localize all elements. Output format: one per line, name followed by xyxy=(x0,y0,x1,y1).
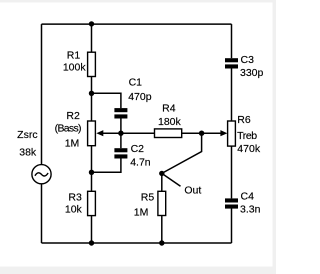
potentiometer R6 (Treb) xyxy=(220,114,260,155)
svg-text:1M: 1M xyxy=(134,207,149,219)
potentiometer R2 (Bass) xyxy=(55,110,104,150)
wire node D to R6 wiper xyxy=(202,132,221,134)
svg-text:(Bass): (Bass) xyxy=(55,123,81,135)
svg-text:Zsrc: Zsrc xyxy=(17,129,37,141)
svg-text:470p: 470p xyxy=(128,91,152,103)
svg-text:Treb: Treb xyxy=(237,130,257,142)
svg-text:R6: R6 xyxy=(237,114,251,126)
node A xyxy=(89,91,94,96)
wire Out label pointer xyxy=(162,173,181,186)
wire R3 to bottom rail xyxy=(91,216,93,243)
svg-text:R4: R4 xyxy=(162,103,176,115)
svg-text:3.3n: 3.3n xyxy=(240,204,261,216)
svg-text:C4: C4 xyxy=(241,190,255,202)
node D xyxy=(199,131,204,136)
svg-text:C2: C2 xyxy=(131,143,145,155)
source Zsrc xyxy=(17,129,51,184)
wire node A to R2 xyxy=(91,93,93,121)
svg-text:4.7n: 4.7n xyxy=(130,157,151,169)
svg-text:R2: R2 xyxy=(66,110,80,122)
wire right rail top xyxy=(231,24,233,58)
svg-text:38k: 38k xyxy=(19,147,37,159)
window chrome gray bands xyxy=(0,0,276,3)
node R3 bottom xyxy=(89,240,94,245)
node B xyxy=(89,170,94,175)
capacitor C3 xyxy=(225,54,264,79)
resistor R3 xyxy=(65,191,96,215)
capacitor C4 xyxy=(225,190,261,215)
svg-text:1M: 1M xyxy=(65,138,80,150)
svg-text:100k: 100k xyxy=(63,62,87,74)
wire node A to C1 xyxy=(92,93,121,108)
wire R1 branch top xyxy=(91,24,93,52)
wire right rail bottom xyxy=(231,208,233,243)
wire R5 to bottom rail xyxy=(161,216,163,244)
wire right rail C3 to R6 xyxy=(231,68,233,121)
wire left rail lower xyxy=(41,184,43,243)
svg-text:C3: C3 xyxy=(241,54,255,66)
svg-text:10k: 10k xyxy=(65,204,83,216)
node Out xyxy=(159,171,164,176)
wire bottom rail xyxy=(42,242,232,244)
resistor R1 xyxy=(63,50,96,77)
wire top rail xyxy=(42,23,232,25)
wire left rail upper xyxy=(41,24,43,165)
wire R4 to node D xyxy=(182,132,202,134)
wire C2 to node B xyxy=(92,158,121,172)
svg-text:R1: R1 xyxy=(67,50,81,62)
wire C1 to C2 xyxy=(120,118,122,148)
node R5 bottom xyxy=(159,240,164,245)
capacitor C2 xyxy=(114,143,150,169)
node top junction xyxy=(89,21,94,26)
svg-text:R5: R5 xyxy=(141,191,155,203)
svg-text:180k: 180k xyxy=(158,116,182,128)
wire Out to R5 xyxy=(161,173,163,191)
wire node B to R3 xyxy=(91,172,93,191)
resistor R5 xyxy=(134,191,166,218)
wire R2 to node B xyxy=(91,146,93,173)
svg-text:470k: 470k xyxy=(237,143,261,155)
svg-text:Out: Out xyxy=(184,185,201,197)
svg-text:R3: R3 xyxy=(68,192,82,204)
node wiper junction xyxy=(118,131,123,136)
resistor R4 xyxy=(155,103,182,138)
svg-text:C1: C1 xyxy=(129,77,143,89)
capacitor C1 xyxy=(114,77,151,119)
wire node D down to Out xyxy=(162,133,202,173)
wire right rail R6 to C4 xyxy=(231,146,233,198)
svg-text:330p: 330p xyxy=(240,67,264,79)
wire R2 wiper to R4 xyxy=(103,132,155,134)
wire R1 to node A xyxy=(91,77,93,94)
